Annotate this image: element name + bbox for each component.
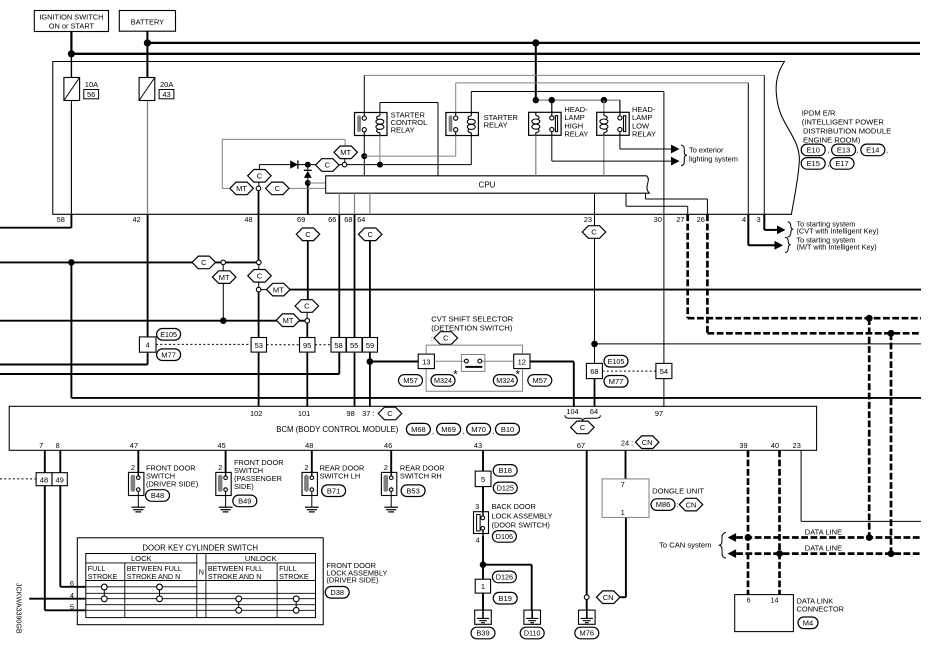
fuse 10A 56 [64,78,99,101]
svg-text:C: C [591,228,597,237]
svg-text:2: 2 [131,463,135,472]
ignition switch source box [34,11,108,32]
wire box12 to BCM104 [530,362,574,407]
svg-text:To CAN system: To CAN system [659,540,711,549]
wire box53 to BCM102 [258,352,260,406]
wire pin48 chain down [258,214,260,262]
terminal box 1 [475,579,490,593]
svg-text:(DOOR SWITCH): (DOOR SWITCH) [492,520,550,529]
wire CPU to pin23 [594,193,596,214]
harness hexagon C pin69 lo [295,300,319,313]
ground B49 [219,507,233,512]
wire row4 feed [29,598,86,600]
svg-text:B48: B48 [151,491,164,500]
svg-text:101: 101 [298,409,310,418]
svg-text:D110: D110 [524,629,541,638]
connector M69 [437,423,465,435]
contact col2 pair [157,584,163,602]
svg-text:B49: B49 [238,497,251,506]
connector B18 [493,465,517,477]
svg-text:SIDE): SIDE) [234,482,254,491]
svg-text:(M/T with Intelligent Key): (M/T with Intelligent Key) [797,243,877,252]
connector E17 [830,158,854,170]
terminal box 54 [656,363,672,378]
CAN wire 27 branch down [868,318,871,537]
label pin2 B71 [305,463,309,472]
svg-text:7: 7 [39,441,43,450]
connector B49 [233,495,257,507]
wire BCM7 [44,450,46,472]
svg-text:M70: M70 [471,425,486,434]
connector E105 right [604,355,628,367]
svg-text:*: * [453,370,458,382]
svg-text:B39: B39 [476,629,489,638]
harness hexagon CN dongle [679,498,703,511]
IPDM pin numbers [57,215,761,224]
relay starter label [484,113,519,130]
connector M57 left [399,375,423,387]
CVT selector outer box [426,345,522,391]
CAN data line 2 [736,552,921,555]
svg-text:N: N [199,568,204,577]
link C to circle node [258,182,260,186]
link C to circle3 [258,282,260,287]
back door switch symbol [474,512,489,536]
wire headlamp low coil to CPU [603,135,605,176]
svg-text:B53: B53 [406,486,419,495]
wire circle to box95 [306,323,308,338]
connector E105 left [157,329,181,341]
junction pin69 node [305,180,311,186]
wire dot to box1 [482,565,484,580]
arrow starting MT [775,241,784,250]
connector E10 [801,144,825,156]
CVT shift selector label [431,315,513,333]
svg-text:lighting system: lighting system [689,154,738,163]
wire pin66 mid [338,214,340,337]
svg-text:49: 49 [56,475,64,484]
diode D2 [304,165,312,183]
svg-text:STROKE AND N: STROKE AND N [127,572,181,581]
svg-text:IPDM E/R: IPDM E/R [802,108,836,117]
label to starting system CVT [797,219,879,235]
wire diode node to CPU gray [308,182,326,184]
table row5 conductor [86,609,316,611]
svg-text:E13: E13 [837,146,850,155]
diode D1 [290,160,298,168]
wire pin3 vertical [763,75,765,214]
connector B53 [401,485,425,497]
svg-text:B10: B10 [501,425,514,434]
svg-text:M86: M86 [656,500,671,509]
connector E15 [801,158,829,170]
svg-text:MT: MT [283,316,294,325]
wire BCM48pin [311,450,313,472]
svg-text:M324: M324 [496,376,514,385]
svg-text:MT: MT [236,184,247,193]
svg-text:C: C [275,184,281,193]
terminal box 55 [347,338,363,353]
terminal box 59 [363,338,378,353]
connector D38 [325,587,349,599]
svg-text:98: 98 [346,409,354,418]
label pin2 B48 [131,463,135,472]
wire pin30 to BCM97 [663,290,665,407]
svg-text:DOOR KEY CYLINDER SWITCH: DOOR KEY CYLINDER SWITCH [142,544,258,553]
svg-text:B19: B19 [499,594,512,603]
svg-text:8: 8 [56,441,60,450]
wire pin4 vertical [747,83,749,214]
connector E13 [832,144,859,156]
svg-text:95: 95 [303,341,311,350]
wire BCM8 [59,450,61,472]
svg-text:(DRIVER SIDE): (DRIVER SIDE) [146,480,198,489]
wire y397 long [71,397,921,399]
junction pin23 y343 [591,341,598,348]
svg-text:47: 47 [130,441,138,450]
terminal box 53 [251,338,266,353]
wire B49 to ground [225,496,227,508]
BCM box [9,406,816,450]
svg-text:RELAY: RELAY [632,130,656,139]
svg-text:23: 23 [793,441,801,450]
harness hexagon C mid [316,159,340,172]
svg-text:27: 27 [676,215,684,224]
junction DL2 40 [776,550,783,557]
wire pin42 lower [147,214,149,337]
connector M77 left [157,349,181,361]
svg-text:C: C [257,172,263,181]
connector D126 [492,571,516,583]
svg-text:D38: D38 [330,588,344,597]
svg-text:2: 2 [384,463,388,472]
terminal box 5 [475,471,491,487]
back door lock label [492,502,553,529]
connector circle3 [256,287,261,292]
svg-text:*: * [516,370,521,382]
harness hexagon C CVT [434,332,458,345]
CAN wire 26 branch down [890,333,893,553]
junction relay1 contact y156 [361,153,367,159]
ground B53 [384,507,398,512]
relay starter K2 [446,113,479,136]
wire box55 to BCM98 [354,352,356,406]
terminal box 58 [331,338,346,353]
label to starting system MT [797,235,877,251]
wire pin58 exit left [0,214,71,227]
harness hexagon CN BCM24 [635,436,659,449]
harness hexagon C pin64 [358,228,382,241]
svg-text:M77: M77 [161,350,176,359]
link circle3 to MT [261,289,267,291]
svg-text:(DRIVER SIDE): (DRIVER SIDE) [326,576,378,585]
CAN wire pin27 [688,214,921,318]
terminal box 68 [586,363,602,378]
svg-text:CPU: CPU [479,180,496,189]
svg-text:DONGLE UNIT: DONGLE UNIT [652,486,704,495]
junction relay1 coil y164 [377,162,383,168]
wire bus to headlamp relay bus [535,43,537,100]
svg-text:40: 40 [771,441,779,450]
svg-text:5: 5 [481,475,485,484]
wire MT to y320 junction [222,283,224,320]
svg-text:CN: CN [603,593,614,602]
svg-text:IGNITION SWITCH: IGNITION SWITCH [39,12,103,21]
wire row y320 [0,320,305,322]
svg-text:M4: M4 [803,618,813,627]
wire 48 to row5 [45,486,86,611]
svg-text:37 :: 37 : [362,409,374,418]
wire B71 to ground [311,496,313,508]
svg-text:STROKE AND N: STROKE AND N [208,572,262,581]
junction headlamp bus coil low [601,97,607,112]
svg-text:10A: 10A [85,80,98,89]
svg-text:46: 46 [384,441,392,450]
harness hexagon MT below circle1 [212,271,236,284]
svg-text:E10: E10 [807,146,820,155]
harness hexagon C pin23 [582,226,606,239]
wire CPU to pin27 route [626,193,688,214]
wire switch to dot [482,536,484,565]
brace to CAN system [719,533,726,559]
wire CPU to pin66 [338,193,340,214]
wire pin64 mid [369,241,371,338]
wire pin48 upper [258,191,260,215]
wire headlamp high contact out [552,135,671,161]
harness hexagon MT y289 [267,283,291,296]
svg-text:M57: M57 [533,376,548,385]
brace starting MT [785,237,791,252]
wire relay1 contact feed y75 [364,75,764,112]
svg-text:CN: CN [686,500,697,509]
door key cylinder table frame [86,554,316,618]
junction headlamp bus contact high [549,97,555,112]
svg-text:6: 6 [70,579,74,588]
ground D110 [524,610,541,624]
svg-text:2: 2 [218,463,222,472]
svg-text:26: 26 [697,215,705,224]
connector B19 [493,592,517,604]
rear door switch LH [302,472,317,495]
wire CN to dongle pin1 [620,517,626,597]
harness hexagon C 104-64 [571,421,595,434]
connector circle pin69 chain [305,318,310,323]
arrow data line 2 [728,549,737,558]
wire 49 to row6 [60,486,86,587]
label pin2 B49 [218,463,222,472]
svg-text:CN: CN [642,438,653,447]
svg-text:C: C [580,423,586,432]
svg-text:,: , [492,427,494,436]
table row4 conductor [86,598,316,600]
wire pin30 vertical [663,92,665,290]
link circle2 to C [258,265,260,270]
svg-text:E105: E105 [608,357,625,366]
rear door switch LH label [320,463,365,480]
rear door switch RH [381,472,396,495]
junction back door ground split [480,561,487,568]
svg-text:97: 97 [655,409,663,418]
harness hexagon C BCM37 [378,407,402,420]
svg-text:58: 58 [334,341,342,350]
underbrace 104-64 [565,415,601,420]
svg-text:4: 4 [742,215,746,224]
wire CPU to pin26 route [646,193,708,214]
harness hexagon CN M76 [596,591,620,604]
dashed link box53-box95 [267,344,300,346]
wire ignition feed vertical [70,32,72,78]
IPDM E/R label [802,108,891,144]
wire relay2 contact feed y83 [456,83,749,113]
junction ignition-bus [68,50,75,57]
svg-text:RELAY: RELAY [391,126,415,135]
wire CPU to pin64 [369,193,371,214]
svg-text:MT: MT [340,148,351,157]
svg-text:64: 64 [590,407,598,416]
svg-text:53: 53 [255,341,263,350]
connector M70 [467,423,495,435]
wire BCM24 to dongle [625,450,627,479]
wire pin23 to box68 [594,344,596,364]
harness hexagon C pin69 hi [296,228,320,241]
wire C to circle pin69 [306,312,308,318]
wire box68 to BCM64 [594,379,596,407]
wire box1 to ground [482,593,484,610]
door key cylinder switch outer box [77,538,323,625]
connector D106 [492,531,516,543]
label pin3 back door [475,502,479,511]
wire branch down from y262 [70,262,72,398]
svg-text:To exterior: To exterior [689,145,724,154]
wire relay2 coil feed y91 [471,92,664,113]
contact col4 pair [293,596,299,613]
relay starter control label [391,110,428,134]
wire BCM43 [482,450,484,471]
svg-text:ON or START: ON or START [49,21,95,30]
wire box5 to switch [482,487,484,512]
svg-text:LOCK ASSEMBLY: LOCK ASSEMBLY [492,511,553,520]
svg-text:45: 45 [217,441,225,450]
wire relay1 coil to CPU y102 [380,103,438,176]
connector B39 [471,627,495,639]
CAN wire BCM39 [747,450,750,594]
wire starter coil line y164 [259,136,471,171]
svg-text:23: 23 [584,215,592,224]
svg-text:,: , [886,146,888,155]
wire box59 down [369,352,371,406]
wire CPU to pin68 [354,193,356,214]
svg-text:68: 68 [590,367,598,376]
wire row y364 exit left [0,364,148,366]
svg-text:BCM (BODY CONTROL MODULE): BCM (BODY CONTROL MODULE) [276,425,399,434]
svg-text:DATA LINE: DATA LINE [805,527,842,536]
svg-text:M69: M69 [441,425,456,434]
BCM label [276,425,399,434]
front door switch passenger [216,472,231,495]
svg-text:55: 55 [350,341,358,350]
junction bus to headlamp feed [532,39,539,46]
junction headlamp bus coil high [533,97,539,103]
svg-text:BACK DOOR: BACK DOOR [492,502,536,511]
junction DL1 27branch [866,534,873,541]
relay headlamp high label [564,105,588,139]
connector B10 [496,423,520,435]
svg-text:RELAY: RELAY [484,121,508,130]
svg-text:4: 4 [70,591,74,600]
junction diode node [305,162,311,168]
relay headlamp low label [632,105,656,139]
svg-text:DISTRIBUTION MODULE: DISTRIBUTION MODULE [803,127,891,136]
svg-text:M68: M68 [411,425,426,434]
contact col3 pair [236,596,242,613]
svg-text:D125: D125 [497,484,514,493]
harness hexagon MT y320 [276,314,300,327]
harness hexagon C pin48 chain [248,270,272,283]
svg-text:,: , [432,427,434,436]
svg-text:3: 3 [475,502,479,511]
wire circle3 to box53 [258,292,260,338]
svg-text:D126: D126 [496,573,513,582]
connector M76 [575,627,599,639]
svg-text:12: 12 [518,357,526,366]
svg-text:14: 14 [771,595,779,604]
svg-text:C: C [367,230,373,239]
svg-text:68: 68 [344,215,352,224]
svg-text:BATTERY: BATTERY [131,18,164,27]
connector M324 left [431,370,458,387]
svg-text:(CVT with Intelligent Key): (CVT with Intelligent Key) [797,227,879,236]
svg-text:43: 43 [474,441,482,450]
junction y361 node [367,358,374,365]
label to CAN system [659,540,711,549]
contact col1 pair [101,584,107,602]
connector D125 [493,482,517,494]
svg-text:39: 39 [739,441,747,450]
connector E14 [827,144,888,156]
svg-text:102: 102 [250,409,262,418]
svg-text:C: C [305,230,311,239]
wire headlamp low contact out [620,135,671,149]
svg-text:JCKWA3390GB: JCKWA3390GB [15,583,23,634]
wire relay1 coil down [379,136,381,165]
svg-text:7: 7 [621,480,625,489]
connector M77 right [604,376,628,388]
wire fuse43 to pin42 gray [147,101,149,215]
detention switch symbol [434,355,513,372]
fuse 20A 43 [139,78,174,101]
wire pin23 mid [594,214,596,344]
table header labels [88,554,309,581]
relay headlamp low K4 [597,112,630,135]
svg-text:C: C [257,272,263,281]
svg-text:13: 13 [422,357,430,366]
svg-text:STROKE: STROKE [88,572,118,581]
svg-text:2: 2 [305,463,309,472]
connector circle node y188 [256,186,261,191]
door key cylinder switch title [142,544,258,553]
wire row y262 [0,261,259,263]
wire branch to D110 [483,565,532,610]
svg-text:C: C [387,409,393,418]
svg-text:3: 3 [756,215,760,224]
front door switch driver [129,472,144,495]
CAN wire BCM40 [778,450,781,594]
svg-text:SWITCH RH: SWITCH RH [400,471,442,480]
brace exterior lighting [681,145,687,166]
svg-text:69: 69 [297,215,305,224]
dashed link box4-box53 [156,343,251,345]
label data line 1 [805,527,842,536]
